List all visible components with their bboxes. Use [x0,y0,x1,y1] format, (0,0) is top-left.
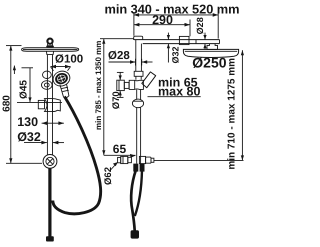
mixer lever handle [142,72,156,88]
arm coupling nut [179,36,189,44]
riser pipe (left column) [46,51,53,155]
svg-text:Ø45: Ø45 [19,80,30,99]
mixer slider sleeve [134,71,143,76]
dimension arrows for D28 (riser) [109,59,153,66]
mixer body [129,80,143,89]
leader underline for min65/max80 [148,96,201,98]
hose (left column) [53,97,101,214]
overhead shower disc (left, side view) [22,48,79,52]
riser top cap (right column) [134,36,143,40]
hand shower holder assembly (right) [118,156,154,163]
leader arrow for D62 [111,162,119,170]
svg-text:min 785 - max 1350 mm: min 785 - max 1350 mm [94,41,103,130]
dimension line for D45 [13,65,62,102]
ball union below mixer [132,99,143,108]
hand shower holder ring (left) [42,71,53,89]
hand shower handle (left) [60,84,69,98]
svg-text:130: 130 [17,115,38,129]
dimension line A (min340-max520) [134,13,219,39]
ball knob on top of left column [46,39,54,48]
svg-text:Ø100: Ø100 [55,54,83,66]
overhead shower disc (right, D250) [183,49,238,57]
slider bracket (left column) [38,99,60,112]
dimension 680 vertical line [6,46,42,164]
extension line from holder to right dim [154,159,244,161]
mixer left inlet fitting [117,80,129,90]
riser pipe (right column, upper) [136,40,142,71]
svg-text:65: 65 [113,142,127,156]
svg-text:Ø62: Ø62 [103,167,114,185]
dimension line for D100 [51,65,71,71]
head hub (right) [207,44,218,50]
svg-text:Ø28: Ø28 [195,17,205,34]
dimension vertical line min710-max1275 [241,50,244,160]
dimension vertical line min785-max1350 [100,39,134,156]
dimension arrows for D28 (arm) [203,33,206,50]
dimension arrows for D70 [117,72,124,97]
dimension line for 65 [104,154,136,158]
svg-text:Ø28: Ø28 [108,50,130,62]
svg-text:Ø32: Ø32 [17,130,41,144]
svg-text:min 710 - max 1275 mm: min 710 - max 1275 mm [227,58,238,170]
hand shower head (left) [51,69,72,89]
riser pipe (right column, lower) [137,90,141,164]
svg-text:Ø32: Ø32 [170,46,180,63]
dimension line for D32 (left) [24,141,64,145]
svg-text:Ø250: Ø250 [192,55,226,71]
dimension line for 130 [42,121,64,125]
svg-text:680: 680 [2,95,13,112]
wall union circle (left column bottom) [43,155,57,169]
dimension arrows for D32 (arm outer) [167,33,170,63]
dimension line B (290) [134,20,190,37]
supply hose below union (left) [46,168,54,241]
hand shower hanging (right) with hose [131,164,145,239]
shower arm tube [134,40,220,44]
